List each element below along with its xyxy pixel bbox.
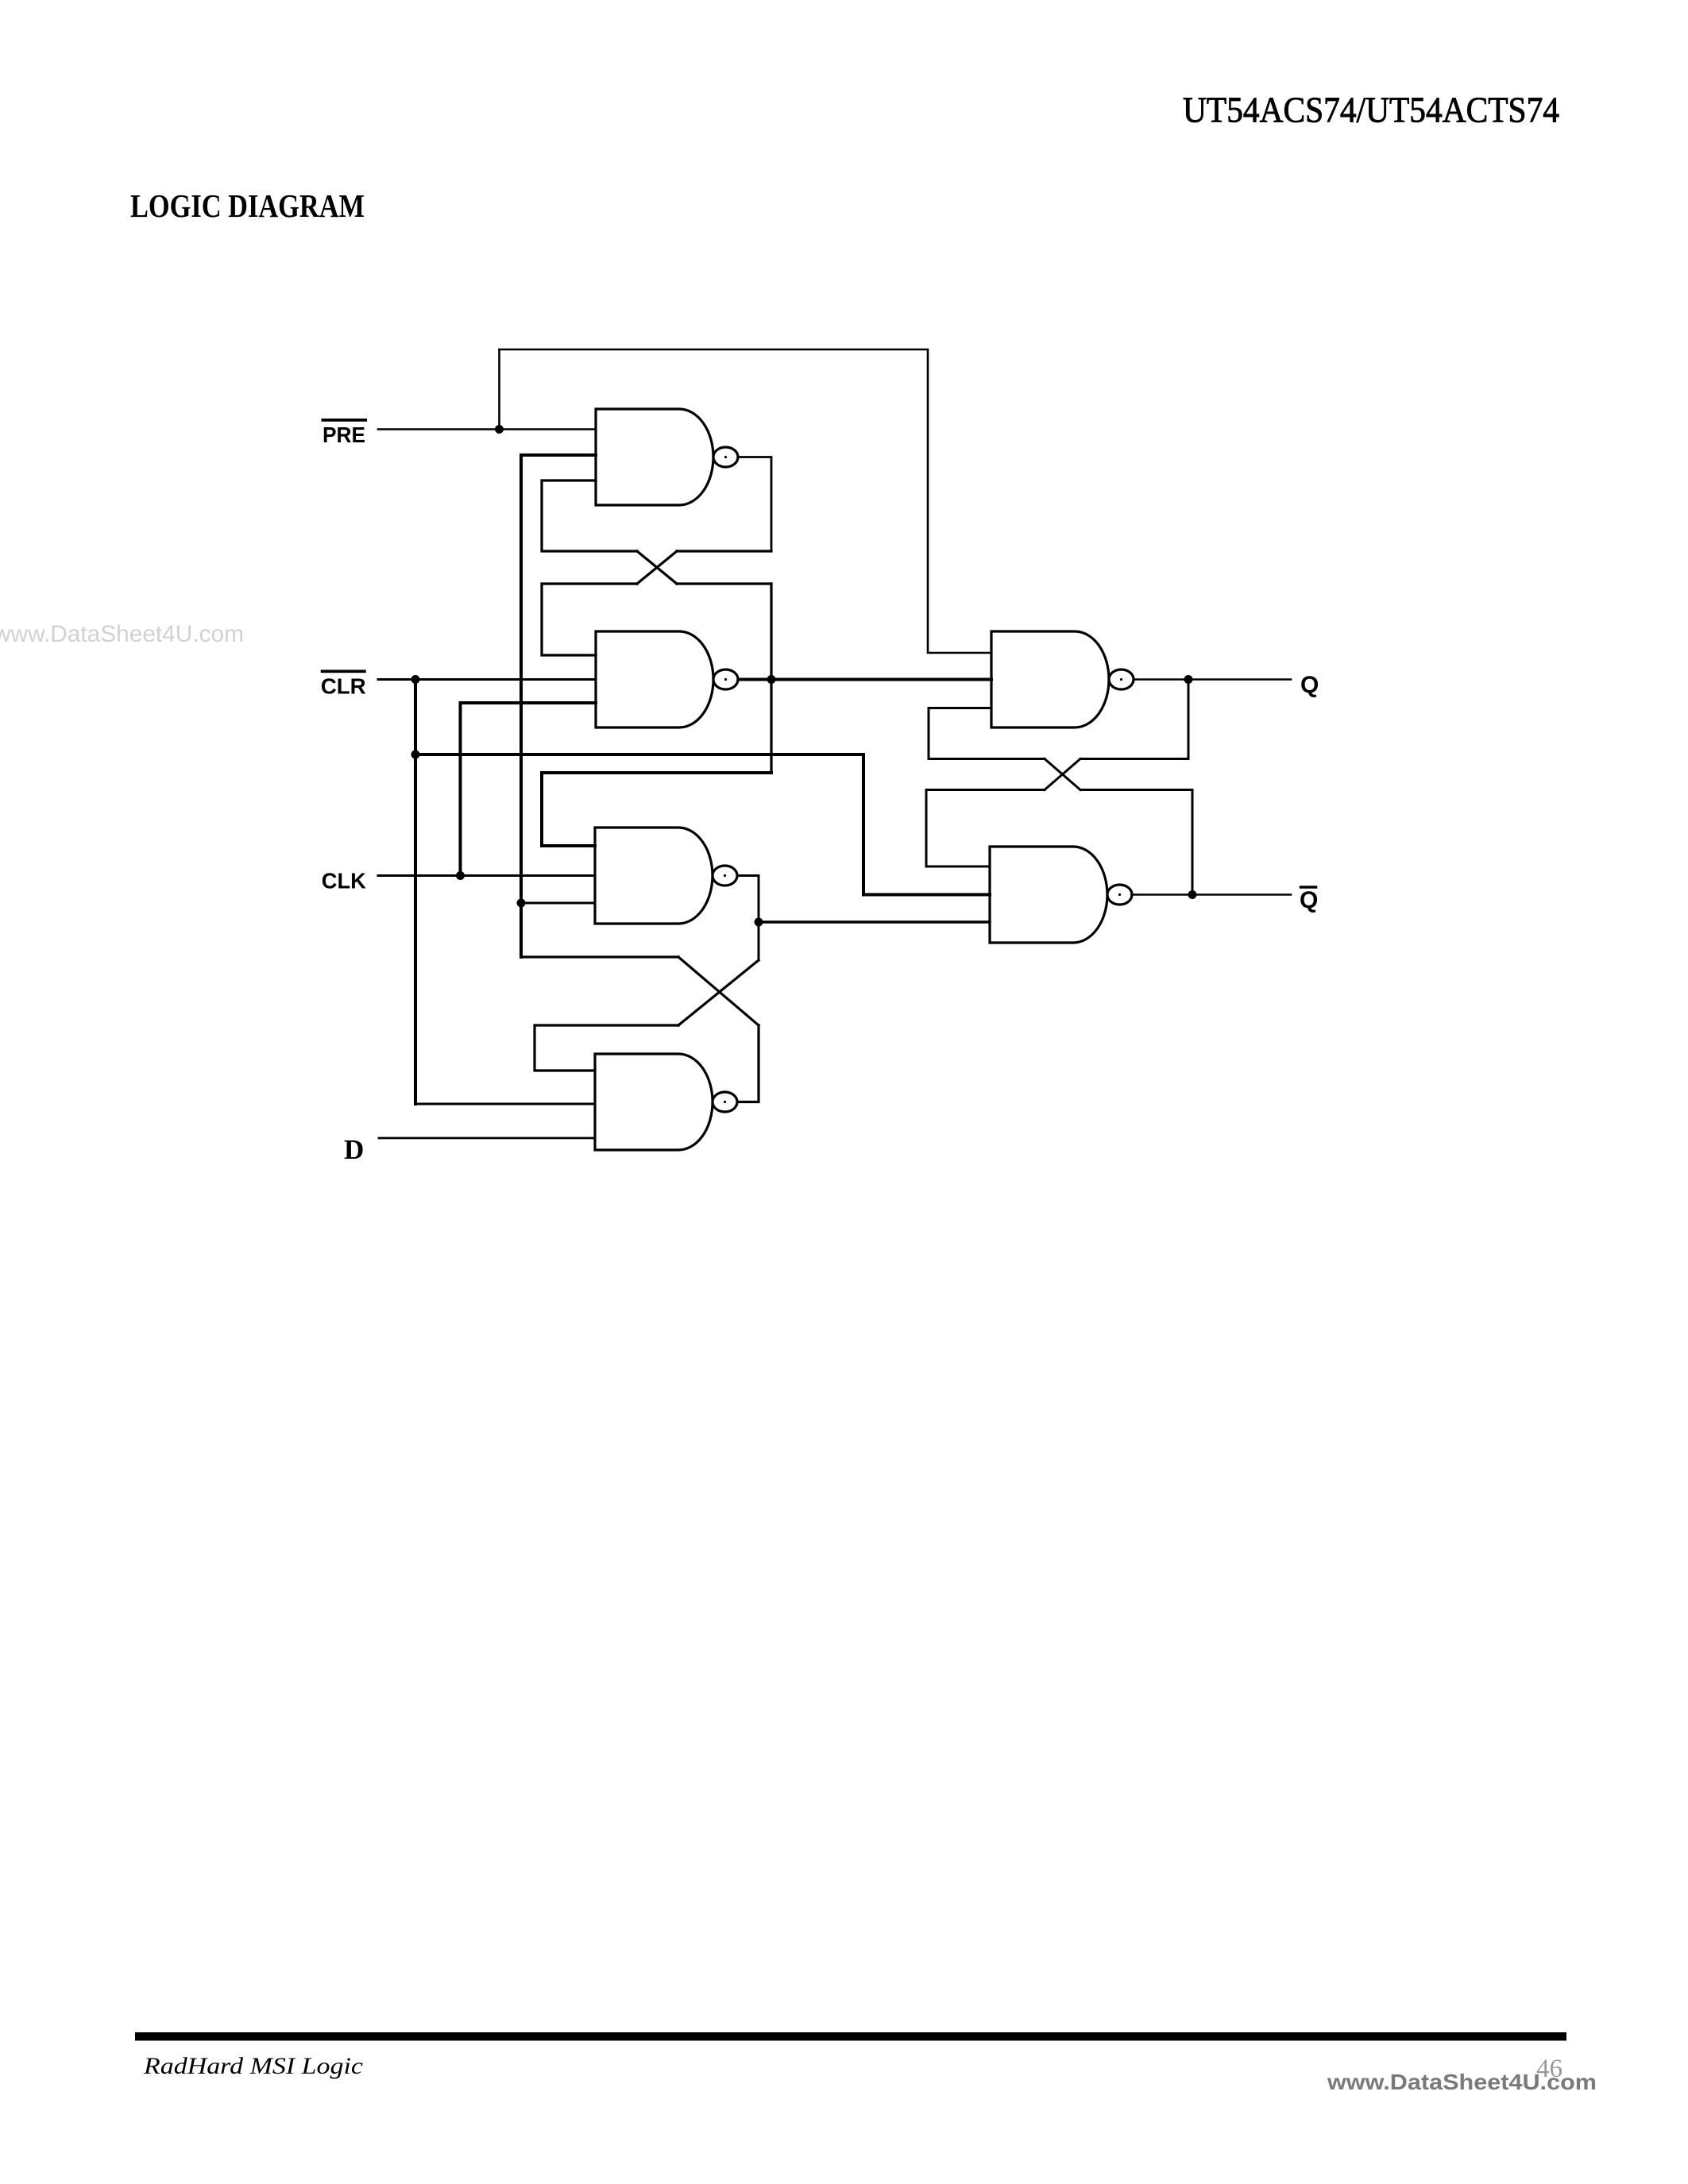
- wire G3out branch to G6 pin 3: [759, 920, 990, 923]
- inverter bubble of G5 (Q output): [1109, 669, 1134, 689]
- wire CLR branch to G6 pin 2: [415, 754, 990, 895]
- wire PRE top feedback to G5: [500, 349, 992, 653]
- svg-text:Q: Q: [1300, 887, 1318, 913]
- wire Q-bar feedback run to G5 pin 3: [929, 708, 1045, 759]
- NAND gate G2 (clear latch): [596, 631, 713, 727]
- wire G2out run to G3 pin 1: [542, 773, 771, 846]
- NAND gate G1 (preset latch): [596, 409, 713, 505]
- wire G3 output stub: [738, 876, 759, 961]
- net label CLR (active low) overline: [321, 669, 366, 673]
- wire cross diagonal G4out: [678, 957, 759, 1025]
- node CLR junction upper (junction): [411, 675, 420, 684]
- NAND gate G6 (Q-bar output): [990, 847, 1107, 943]
- wire CLK input to G3 pin 2: [378, 874, 595, 877]
- node CLK junction (junction): [456, 871, 465, 880]
- node G3 output junction (junction): [755, 918, 763, 927]
- wire CLR input to G2 pin 2: [378, 678, 596, 681]
- wire PRE feedback riser at junction: [498, 349, 500, 430]
- node G2 output junction (junction): [767, 675, 776, 684]
- NAND gate G5 (Q output): [991, 631, 1109, 727]
- svg-text:Q: Q: [1300, 672, 1319, 698]
- wire G2out upper-left run to G1 pin 3: [542, 480, 637, 551]
- wire CLR vertical trunk: [414, 680, 417, 1105]
- wire Q-bar feedback riser: [1080, 790, 1192, 895]
- inverter bubble of G2 (clear latch): [713, 669, 738, 689]
- wire cross diagonal Q-bar: [1045, 759, 1080, 790]
- wire Q feedback run to G6 pin 1: [926, 790, 1045, 867]
- wire cross diagonal G2out: [637, 551, 677, 584]
- NAND gate G3 (clock gate): [595, 828, 713, 924]
- NAND gate G4 (data gate): [595, 1054, 713, 1150]
- wire G4out branch to G3 pin 3: [521, 902, 595, 905]
- wire D input to G4 pin 3: [379, 1137, 595, 1140]
- svg-text:LOGIC DIAGRAM: LOGIC DIAGRAM: [130, 187, 365, 224]
- wire CLR branch to G4 pin 2: [415, 1103, 595, 1106]
- node Q junction (junction): [1184, 675, 1193, 684]
- node PRE junction (junction): [495, 425, 504, 434]
- svg-text:CLR: CLR: [321, 674, 366, 699]
- node G4out/G3 junction (junction): [517, 899, 526, 908]
- wire G1 output stub: [739, 457, 772, 552]
- node CLR junction lower (junction): [411, 751, 420, 759]
- wire cross diagonal G3out: [678, 960, 759, 1025]
- svg-text:PRE: PRE: [323, 423, 365, 447]
- wire PRE input to G1 pin 1: [378, 428, 596, 430]
- svg-text:www.DataSheet4U.com: www.DataSheet4U.com: [1327, 2070, 1597, 2094]
- node Q-bar junction (junction): [1188, 890, 1197, 899]
- inverter bubble of G6 (Q-bar output): [1107, 885, 1132, 905]
- net label PRE (active low) overline: [322, 419, 368, 422]
- wire G4out horizontal above cross: [521, 955, 678, 958]
- wire G3out run to G4 pin 1: [535, 1025, 678, 1071]
- svg-text:UT54ACS74/UT54ACTS74: UT54ACS74/UT54ACTS74: [1183, 90, 1559, 130]
- wire G2 output to G5 pin 2: [739, 678, 992, 681]
- net label Q-bar overline: [1300, 886, 1318, 889]
- wire G4 output riser: [738, 1025, 759, 1102]
- svg-text:D: D: [344, 1134, 364, 1165]
- wire G2out lower-right stub: [677, 582, 771, 585]
- svg-text:CLK: CLK: [322, 869, 366, 893]
- inverter bubble of G3 (clock gate): [713, 866, 737, 886]
- wire Q feedback drop: [1080, 680, 1188, 759]
- wire cross diagonal G1out: [637, 551, 677, 584]
- footer rule bar: [135, 2032, 1566, 2041]
- wire G2out vertical drop: [770, 584, 772, 773]
- wire G1out lower-left run to G2 pin 1: [542, 584, 637, 655]
- inverter bubble of G1 (preset latch): [713, 447, 738, 467]
- wire cross diagonal Q: [1045, 759, 1080, 790]
- wire Q-bar output line: [1132, 893, 1292, 896]
- wire G4 output feedback vertical: [520, 455, 523, 957]
- inverter bubble of G4 (data gate): [713, 1092, 737, 1112]
- wire G4out to G1 pin 2: [521, 453, 596, 457]
- wire CLK riser to G2 pin 3: [461, 703, 597, 876]
- wire G1out upper-right stub: [677, 550, 771, 552]
- svg-text:RadHard MSI Logic: RadHard MSI Logic: [143, 2053, 363, 2079]
- svg-text:www.DataSheet4U.com: www.DataSheet4U.com: [0, 621, 244, 647]
- wire Q output line: [1134, 678, 1291, 681]
